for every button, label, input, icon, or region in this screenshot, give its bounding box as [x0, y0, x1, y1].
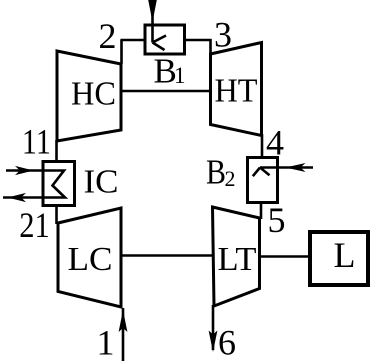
exhaust arrowhead (down) [209, 331, 218, 353]
wire node 1 (air inlet to LC) [122, 308, 125, 361]
shaft LT-L [260, 255, 311, 258]
svg-text:HC: HC [71, 76, 116, 113]
svg-text:4: 4 [266, 122, 284, 162]
intercooler IC coil symbol [44, 171, 65, 198]
svg-text:LC: LC [68, 241, 113, 278]
wire node 6 (LT exhaust) [212, 305, 215, 350]
intercooler IC box [43, 162, 75, 206]
svg-text:HT: HT [215, 72, 258, 109]
wire node 3 (B1 to HT inlet) [185, 39, 211, 54]
cooling water inlet arrowhead (right) [15, 166, 34, 175]
svg-text:5: 5 [268, 200, 286, 240]
fuel arrowhead B1 (down) [148, 0, 157, 22]
combustor B1 injector symbol [153, 24, 167, 50]
cooling water outlet arrowhead (left) [8, 193, 27, 202]
svg-text:IC: IC [84, 163, 119, 200]
combustor B2 box [248, 158, 278, 203]
fuel wire into B1 [151, 0, 154, 24]
load L box [310, 232, 368, 285]
svg-text:2: 2 [225, 166, 236, 191]
shaft LC-LT [122, 254, 212, 257]
svg-text:1: 1 [174, 63, 186, 88]
wire node 2 (HC outlet to B1) [120, 40, 145, 64]
wire node 21 (LC outlet to IC) [55, 205, 58, 224]
cooling water inlet wire [6, 169, 42, 172]
svg-text:1: 1 [97, 323, 115, 361]
turbine LT [213, 207, 260, 306]
wire node 5 (B2 to LT inlet) [260, 202, 263, 219]
svg-text:L: L [334, 235, 356, 275]
fuel arrowhead B2 (left) [286, 163, 306, 172]
svg-text:21: 21 [19, 205, 50, 245]
wire node 4 (HT outlet to B2) [261, 134, 264, 157]
compressor LC [58, 208, 121, 307]
shaft HC-HT [121, 90, 211, 93]
combustor B1 box [145, 25, 185, 54]
svg-text:3: 3 [214, 15, 232, 55]
svg-text:B: B [206, 153, 226, 192]
svg-text:2: 2 [99, 16, 117, 56]
cooling water outlet wire [3, 196, 42, 199]
svg-text:LT: LT [218, 241, 257, 278]
svg-text:6: 6 [218, 322, 236, 361]
compressor HC [57, 51, 121, 141]
label B2 [206, 153, 236, 192]
label B1 [154, 52, 186, 91]
svg-text:11: 11 [22, 122, 51, 162]
combustor B2 injector symbol [253, 168, 278, 177]
air inlet arrowhead (up) [119, 310, 128, 332]
wire node 11 (LC... HC inlet from IC) [55, 140, 58, 162]
fuel wire into B2 [279, 166, 313, 169]
turbine HT [211, 43, 262, 136]
